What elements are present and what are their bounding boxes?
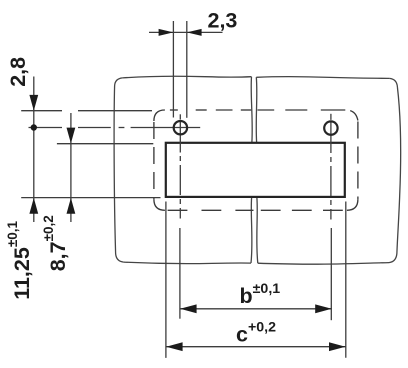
center-line reference dot <box>31 124 37 130</box>
dim 2,8 extension line (phantom top) <box>21 110 152 112</box>
phantom outline right edge <box>357 122 359 200</box>
dim c arrow left <box>166 342 183 351</box>
dim 2,3 extension line left <box>172 21 174 118</box>
phantom outline top edge dashes <box>170 109 345 111</box>
slot (contact opening) <box>166 143 345 197</box>
housing 2 outline <box>256 77 400 265</box>
housing parting line left (lower) <box>250 198 253 263</box>
dim 2,8 / 11,25 dimension line <box>33 77 35 223</box>
dim c extension line right (slot right edge) <box>345 202 347 358</box>
housing 1 outline <box>114 76 251 263</box>
housing parting line right (upper) <box>255 77 258 142</box>
dim 8,7 top arrow <box>67 128 76 144</box>
dim 2,8 arrow <box>29 95 38 111</box>
housing parting line right (lower) <box>257 198 258 263</box>
hole 1 center line vertical <box>179 114 181 218</box>
dim b extension line left (hole 1 axis) <box>179 228 181 319</box>
dim b arrow right <box>315 304 332 313</box>
dim 2,3 extension line right <box>186 21 188 118</box>
dim 11,25 bottom arrow <box>29 198 38 214</box>
phantom outline bottom-left corner <box>154 199 165 210</box>
phantom outline bottom-right corner <box>347 199 358 210</box>
dim c dimension line <box>166 346 345 348</box>
dim 2,3 dimension line <box>149 31 223 33</box>
housing parting line left (upper) <box>251 77 252 142</box>
dim 11,25 extension line (slot bottom) <box>21 197 160 199</box>
svg-text:2,3: 2,3 <box>208 8 238 32</box>
phantom outline top-right corner <box>350 111 358 121</box>
phantom outline bottom edge dashes <box>168 209 343 211</box>
phantom outline (mating face) top-left corner <box>154 110 165 121</box>
dim b arrow left <box>180 304 197 313</box>
dim 2,3 arrow right <box>187 29 202 36</box>
dim 8,7 extension line (slot top) <box>57 143 153 145</box>
horizontal center line through hole 1 <box>29 127 201 129</box>
dim c arrow right <box>329 342 346 351</box>
dim 8,7 dimension line <box>70 113 72 222</box>
dim b dimension line <box>180 308 332 310</box>
dim 8,7 bottom arrow <box>67 198 76 214</box>
dim b extension line right (hole 2 axis) <box>330 228 332 320</box>
dim 2,3 arrow left <box>159 29 174 36</box>
dim c extension line left (slot left edge) <box>165 202 167 358</box>
hole 2 <box>324 121 337 134</box>
hole 1 <box>174 121 187 134</box>
hole 2 center line vertical <box>330 114 332 220</box>
svg-text:2,8: 2,8 <box>6 57 30 87</box>
phantom outline left edge <box>153 122 155 199</box>
